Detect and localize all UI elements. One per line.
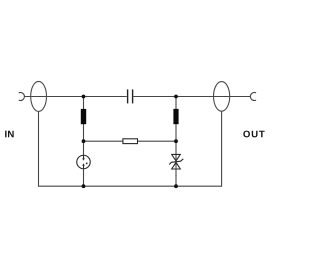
wire left branch vertical bbox=[83, 97, 85, 187]
junction top-left node bbox=[82, 95, 86, 99]
junction mid-right node bbox=[174, 139, 178, 143]
wire left down-leg and bottom rail and right down-leg bbox=[39, 111, 222, 186]
junction mid-left node bbox=[82, 139, 86, 143]
junction top-right node bbox=[174, 95, 178, 99]
wire top right segment bbox=[133, 96, 250, 98]
connector arc right (OUT plug) bbox=[250, 92, 256, 100]
terminal OUT (right ellipse) bbox=[214, 82, 230, 112]
junction bottom-left node bbox=[82, 184, 86, 188]
terminal IN (left ellipse) bbox=[31, 81, 47, 111]
gas discharge tube F1 bbox=[77, 155, 91, 169]
wire middle horizontal bbox=[84, 140, 177, 142]
label OUT bbox=[243, 131, 264, 138]
wire right branch vertical bbox=[175, 97, 177, 187]
suppressor diode V1 (bidirectional TVS) bbox=[169, 154, 183, 169]
wire top left segment bbox=[24, 96, 126, 98]
junction bottom-right node bbox=[174, 184, 178, 188]
inductor L2 (right, filled rect) bbox=[173, 109, 178, 124]
label IN bbox=[5, 131, 14, 138]
capacitor C1 plates bbox=[128, 89, 133, 103]
connector arc left (IN plug) bbox=[19, 93, 25, 101]
inductor L1 (left, filled rect) bbox=[81, 109, 86, 124]
resistor R1 bbox=[123, 139, 138, 144]
